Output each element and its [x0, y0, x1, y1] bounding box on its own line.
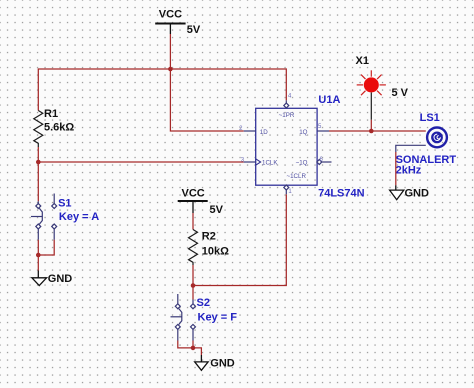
wire clock node to pin 3 (1CLK) — [38, 161, 243, 163]
wire VCC down through junction to 1D corner — [170, 34, 243, 131]
svg-text:1D: 1D — [260, 129, 268, 136]
junction at lamp — [369, 129, 374, 134]
wire sonalert to GND — [395, 152, 397, 185]
ground GND (below S1) — [32, 271, 47, 286]
svg-text:Key = A: Key = A — [59, 211, 99, 223]
svg-text:~1Q: ~1Q — [296, 160, 308, 167]
pin 5 lead (1Q) — [317, 130, 329, 132]
svg-text:1CLK: 1CLK — [262, 160, 278, 167]
pin 1 bubble and lead (~1CLR) — [284, 185, 289, 194]
svg-text:5V: 5V — [210, 204, 224, 216]
ground GND (below LS1) — [390, 185, 404, 199]
svg-text:X1: X1 — [356, 55, 369, 67]
svg-text:U1A: U1A — [318, 94, 340, 106]
pin 6 bubble and stub (~1Q) — [317, 160, 332, 165]
wire S1 second pole to ground junction — [38, 240, 54, 255]
junction above GND (S1) — [36, 253, 41, 258]
resistor R1 — [34, 111, 43, 148]
pin 2 lead (1D) — [244, 130, 256, 132]
svg-text:5.6kΩ: 5.6kΩ — [44, 122, 74, 134]
junction clock node — [36, 160, 41, 165]
svg-text:R1: R1 — [44, 108, 58, 120]
clock wedge — [256, 159, 261, 165]
svg-text:10kΩ: 10kΩ — [202, 246, 229, 258]
switch S2 — [171, 294, 196, 341]
switch S1 — [31, 194, 57, 240]
sonalert lower pin to ground — [396, 145, 426, 152]
svg-text:LS1: LS1 — [420, 112, 440, 124]
svg-text:~1CLR: ~1CLR — [287, 173, 307, 180]
svg-text:Key = F: Key = F — [198, 312, 238, 324]
svg-text:S1: S1 — [58, 197, 71, 209]
power VCC symbol (middle) — [178, 201, 208, 213]
sonalert LS1 symbol — [427, 127, 447, 147]
svg-text:GND: GND — [210, 358, 235, 370]
wire junction left to R1 top — [38, 69, 170, 111]
wire S2 left pole to ground junction — [178, 341, 193, 348]
svg-text:~1PR: ~1PR — [279, 112, 295, 119]
wire junction right to pin 4 (~1PR) — [170, 69, 286, 100]
svg-text:1Q: 1Q — [299, 129, 307, 136]
svg-text:74LS74N: 74LS74N — [318, 188, 365, 200]
junction at VCC node — [168, 67, 173, 72]
wire R1 bottom to S1 with branch — [37, 147, 39, 201]
wire VCC2 to R2 — [192, 213, 194, 230]
lamp X1 lead — [370, 92, 372, 119]
wire lamp to output node — [370, 120, 372, 131]
svg-text:5V: 5V — [187, 24, 201, 36]
resistor R2 — [189, 230, 198, 266]
junction above GND (S2) — [191, 346, 196, 351]
junction clear node — [191, 283, 196, 288]
wire clear node right and up to pin 1 (~1CLR) — [193, 194, 286, 285]
svg-text:R2: R2 — [202, 231, 216, 243]
wire S2 right pole down to ground — [192, 341, 194, 348]
svg-text:2kHz: 2kHz — [396, 165, 422, 177]
pin 3 lead (1CLK) — [244, 161, 256, 163]
svg-text:GND: GND — [405, 188, 430, 200]
wire to GND (S2) — [193, 348, 201, 355]
power VCC symbol (top) — [155, 24, 185, 35]
flip-flop U1A box (74LS74N) — [256, 108, 317, 185]
wire S1 bottom to ground — [37, 240, 39, 271]
pin 4 lead and bubble (~1PR) — [284, 100, 289, 108]
svg-text:VCC: VCC — [182, 188, 205, 200]
lamp X1 (lit indicator) — [357, 70, 386, 95]
wire 1Q output to lamp and sonalert — [329, 130, 426, 132]
svg-text:5 V: 5 V — [392, 87, 409, 99]
ground GND (below S2) — [195, 355, 208, 370]
wire R2 bottom to S2 with branch — [192, 265, 194, 300]
svg-text:VCC: VCC — [159, 9, 182, 21]
svg-text:S2: S2 — [197, 297, 210, 309]
svg-text:GND: GND — [48, 273, 73, 285]
